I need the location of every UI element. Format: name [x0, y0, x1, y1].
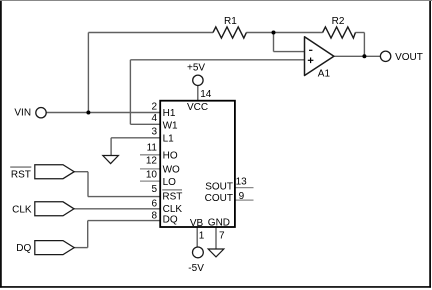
svg-text:VOUT: VOUT: [395, 52, 423, 63]
svg-text:SOUT: SOUT: [205, 181, 233, 192]
svg-text:14: 14: [200, 89, 212, 100]
svg-text:13: 13: [236, 176, 248, 187]
svg-text:-5V: -5V: [188, 263, 204, 274]
svg-text:5: 5: [151, 184, 157, 195]
svg-text:VB: VB: [190, 218, 204, 229]
svg-text:RST: RST: [11, 169, 31, 180]
svg-text:6: 6: [151, 199, 157, 210]
svg-text:7: 7: [219, 230, 225, 241]
svg-text:3: 3: [151, 126, 157, 137]
svg-text:9: 9: [239, 191, 245, 202]
svg-text:12: 12: [146, 156, 158, 167]
svg-text:11: 11: [147, 143, 158, 154]
svg-text:HO: HO: [163, 151, 178, 162]
svg-text:H1: H1: [163, 108, 176, 119]
svg-text:RST: RST: [162, 191, 182, 202]
svg-text:WO: WO: [163, 165, 180, 176]
svg-text:DQ: DQ: [163, 215, 178, 226]
svg-text:1: 1: [199, 230, 205, 241]
svg-text:4: 4: [151, 113, 157, 124]
svg-text:+5V: +5V: [187, 63, 205, 74]
svg-text:VCC: VCC: [187, 102, 208, 113]
svg-text:CLK: CLK: [12, 204, 32, 215]
svg-text:GND: GND: [208, 218, 230, 229]
svg-text:R2: R2: [332, 16, 345, 27]
svg-text:CLK: CLK: [163, 204, 183, 215]
svg-text:W1: W1: [163, 120, 178, 131]
svg-text:2: 2: [151, 102, 157, 113]
svg-text:COUT: COUT: [205, 193, 233, 204]
svg-text:L1: L1: [163, 134, 175, 145]
svg-text:VIN: VIN: [14, 107, 31, 118]
svg-text:LO: LO: [163, 177, 177, 188]
svg-text:8: 8: [151, 210, 157, 221]
svg-text:R1: R1: [224, 16, 237, 27]
svg-text:10: 10: [146, 169, 158, 180]
svg-text:A1: A1: [318, 69, 331, 80]
svg-text:DQ: DQ: [16, 243, 31, 254]
